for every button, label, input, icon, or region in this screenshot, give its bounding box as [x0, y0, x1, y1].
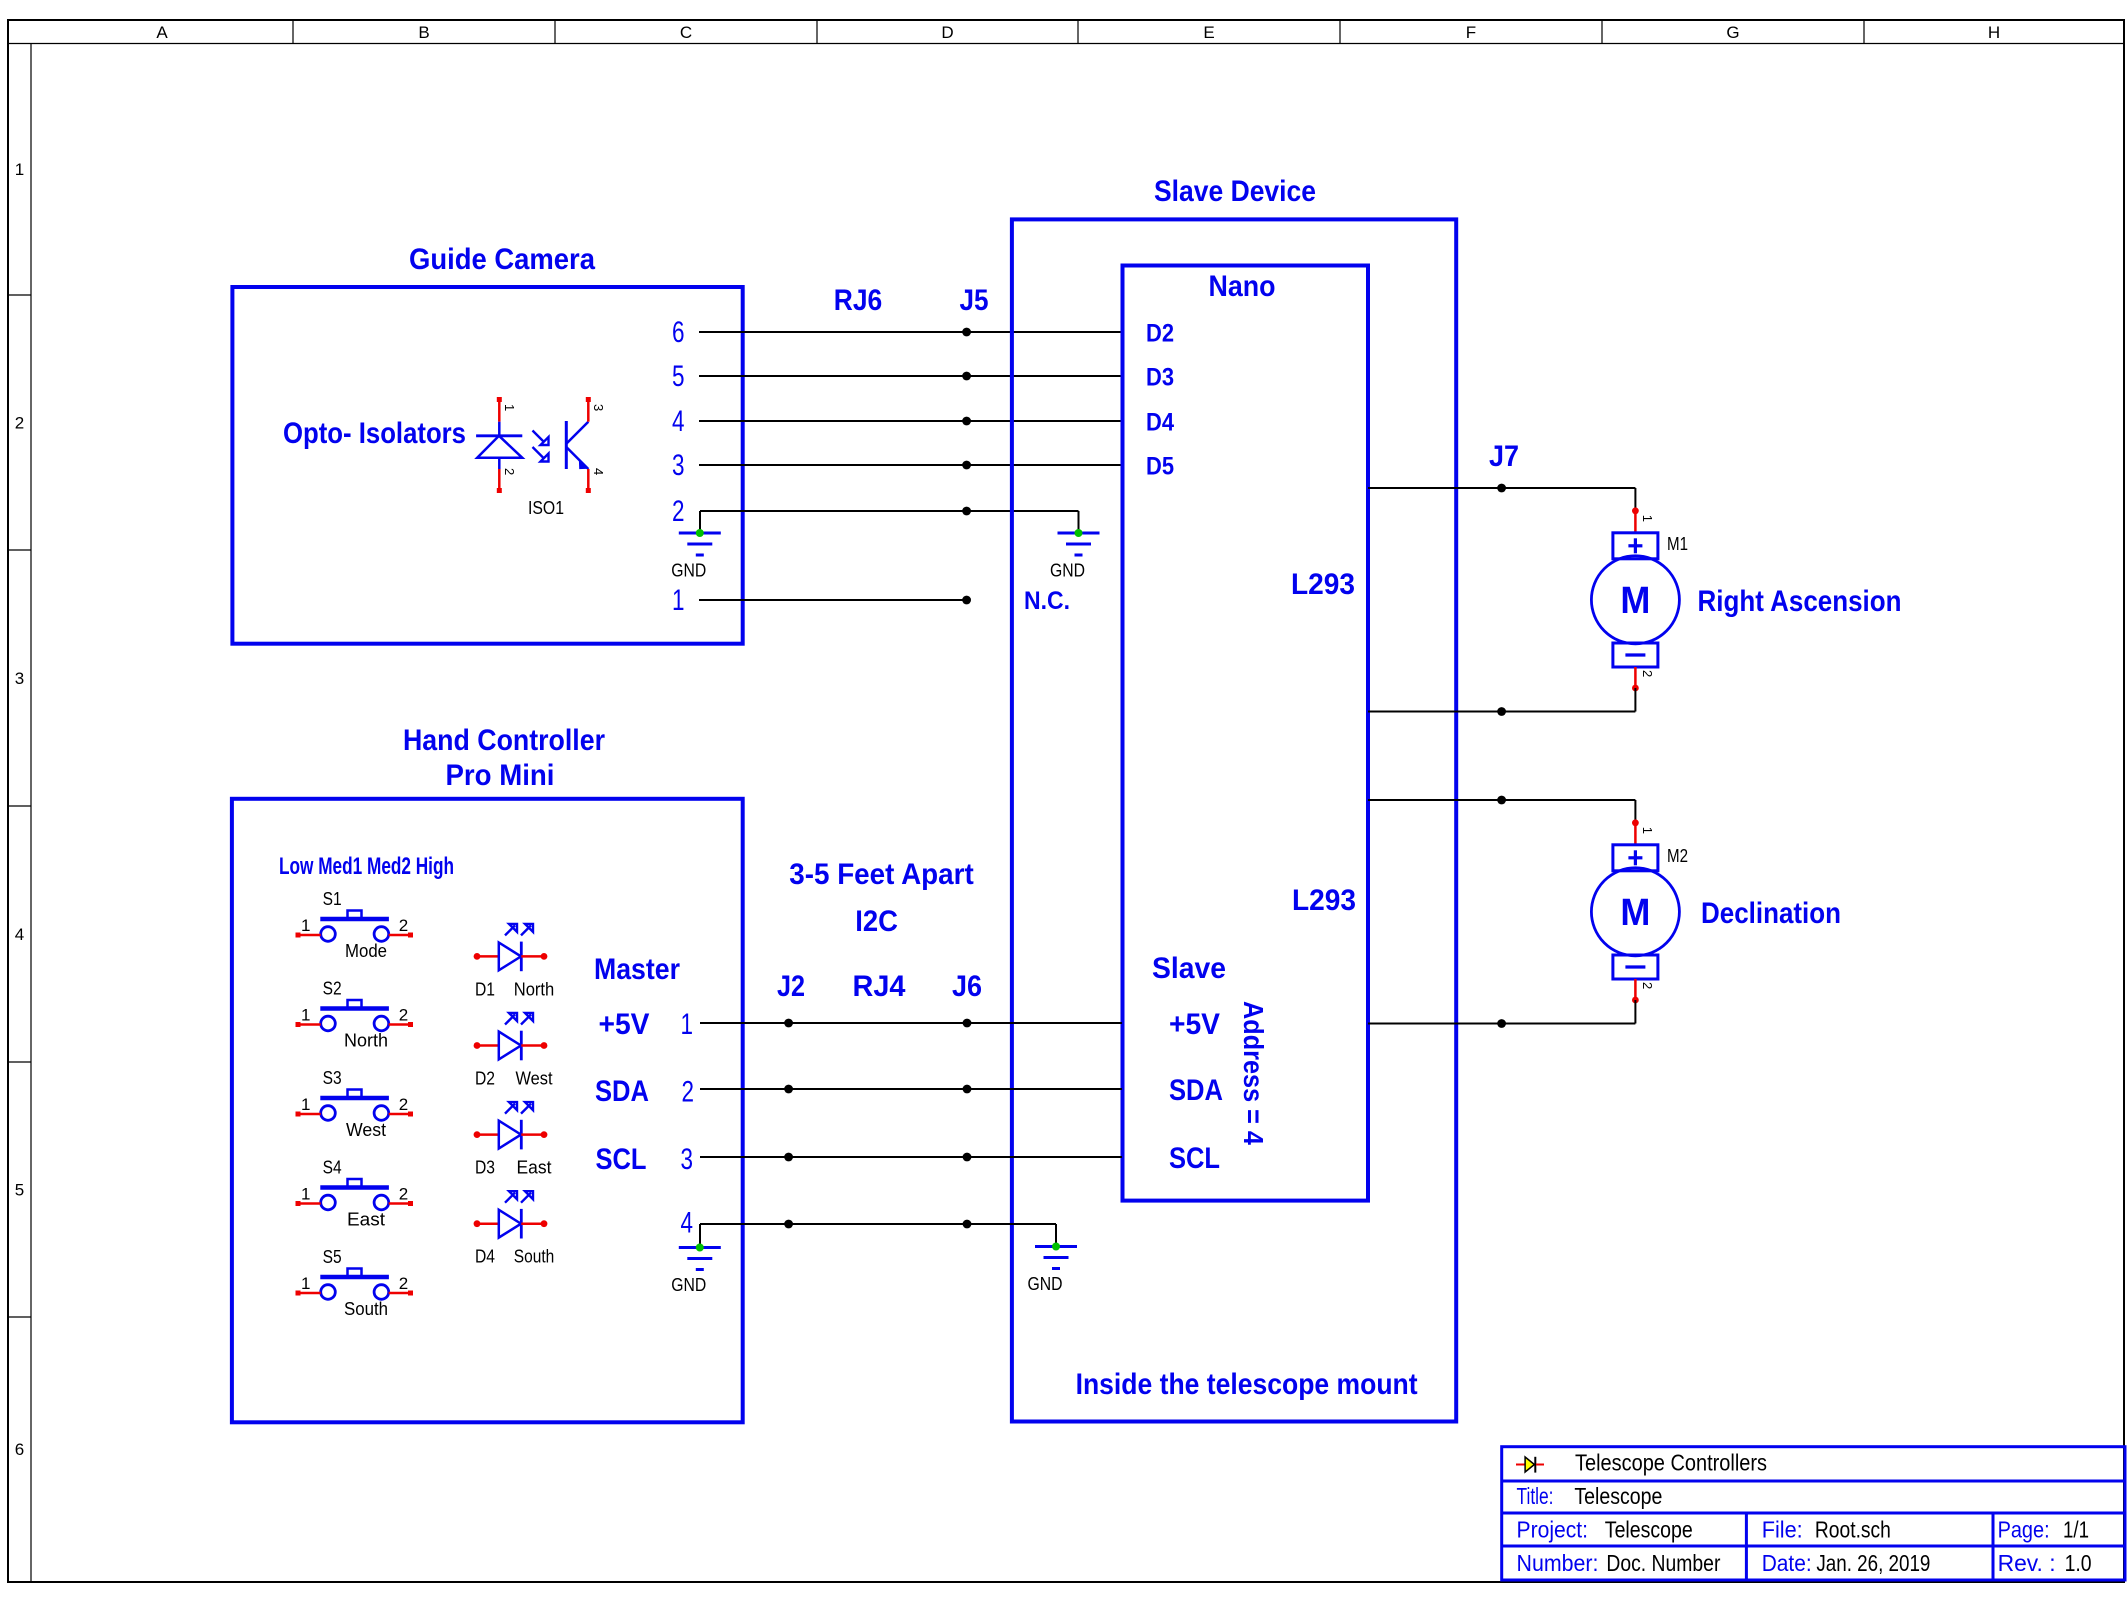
svg-text:Opto- Isolators: Opto- Isolators: [283, 417, 466, 450]
svg-text:North: North: [514, 979, 555, 999]
svg-text:F: F: [1466, 23, 1476, 42]
junction J7 on M2 pin1 wire: [1497, 796, 1506, 805]
svg-text:D4: D4: [1146, 409, 1174, 437]
svg-text:Jan. 26, 2019: Jan. 26, 2019: [1816, 1550, 1930, 1576]
junction on wire 6: [962, 328, 971, 337]
svg-text:West: West: [516, 1069, 553, 1089]
svg-text:Slave: Slave: [1152, 952, 1226, 985]
svg-text:3: 3: [681, 1143, 694, 1176]
svg-text:4: 4: [672, 405, 685, 438]
svg-text:Title:: Title:: [1517, 1483, 1554, 1509]
svg-text:1: 1: [672, 584, 685, 617]
wire SDA master to slave: [700, 1088, 1122, 1090]
svg-text:1: 1: [301, 1274, 310, 1293]
svg-text:RJ6: RJ6: [834, 284, 883, 317]
junction J6 on ground wire: [963, 1220, 972, 1229]
Guide Camera box: [232, 287, 742, 644]
wire motor M2 pin 2 to L293: [1368, 1023, 1635, 1025]
wire L293 to motor M2 pin 1: [1368, 799, 1635, 801]
svg-text:1: 1: [301, 1006, 310, 1025]
svg-text:1: 1: [681, 1008, 694, 1041]
svg-text:D1: D1: [475, 979, 495, 999]
svg-text:4: 4: [15, 925, 24, 944]
svg-text:M1: M1: [1667, 534, 1688, 554]
svg-text:Project:: Project:: [1517, 1517, 1589, 1543]
svg-text:B: B: [418, 23, 429, 42]
svg-text:Doc. Number: Doc. Number: [1606, 1550, 1720, 1576]
LED D4 South: [474, 1191, 555, 1267]
svg-text:1: 1: [301, 1185, 310, 1204]
svg-text:D4: D4: [475, 1247, 495, 1267]
ground at J5 pin 2: [1050, 529, 1100, 581]
svg-text:J5: J5: [960, 284, 989, 317]
svg-text:Declination: Declination: [1701, 897, 1841, 930]
svg-text:Mode: Mode: [345, 941, 387, 961]
svg-text:Telescope: Telescope: [1605, 1517, 1693, 1543]
svg-text:Low Med1 Med2 High: Low Med1 Med2 High: [279, 853, 454, 880]
svg-text:Master: Master: [594, 953, 680, 986]
svg-text:S5: S5: [323, 1247, 342, 1267]
Nano box: [1123, 266, 1369, 1201]
svg-text:1: 1: [301, 1095, 310, 1114]
svg-text:Page:: Page:: [1998, 1517, 2050, 1543]
svg-text:GND: GND: [1028, 1274, 1063, 1294]
title block: [1502, 1447, 2125, 1580]
svg-text:+5V: +5V: [1169, 1008, 1220, 1041]
svg-text:South: South: [344, 1299, 388, 1319]
svg-text:SDA: SDA: [595, 1075, 649, 1108]
junction on wire 4: [962, 417, 971, 426]
junction on wire 2: [962, 507, 971, 516]
svg-text:1: 1: [15, 160, 24, 179]
svg-text:2: 2: [399, 1274, 408, 1293]
svg-text:J7: J7: [1489, 440, 1519, 473]
logo diode: [1516, 1457, 1544, 1473]
svg-text:GND: GND: [671, 561, 706, 581]
motor M2: [1591, 800, 1841, 1024]
junction J6 on SDA wire: [963, 1085, 972, 1094]
switch S4 East: [296, 1158, 414, 1230]
svg-text:North: North: [344, 1031, 388, 1051]
wire pin 4 ground net: [700, 1224, 1056, 1248]
junction J2 on +5V wire: [784, 1019, 793, 1028]
junction J6 on +5V wire: [963, 1019, 972, 1028]
svg-text:Root.sch: Root.sch: [1815, 1517, 1891, 1543]
LED D3 East: [474, 1102, 552, 1178]
svg-text:2: 2: [502, 468, 517, 475]
wire guide camera pin 2 (ground net): [700, 511, 1079, 533]
junction on wire 3: [962, 461, 971, 470]
ground at J6 pin 4: [1028, 1243, 1078, 1295]
svg-text:Pro Mini: Pro Mini: [446, 759, 555, 792]
svg-text:M2: M2: [1667, 846, 1688, 866]
svg-text:M: M: [1620, 580, 1650, 622]
junction end of wire 1: [962, 596, 971, 605]
junction J6 on SCL wire: [963, 1153, 972, 1162]
svg-text:Address = 4: Address = 4: [1238, 1001, 1269, 1145]
svg-text:2: 2: [399, 1006, 408, 1025]
wire guide camera pin 4 to Nano: [699, 420, 1122, 422]
svg-text:Telescope Controllers: Telescope Controllers: [1575, 1450, 1767, 1476]
svg-text:Nano: Nano: [1209, 270, 1276, 303]
svg-text:2: 2: [672, 495, 685, 528]
svg-text:2: 2: [399, 1185, 408, 1204]
wire guide camera pin 6 to Nano: [699, 331, 1122, 333]
switch S5 South: [296, 1247, 414, 1319]
junction on wire 5: [962, 372, 971, 381]
svg-text:File:: File:: [1762, 1517, 1803, 1543]
svg-text:1: 1: [1640, 515, 1655, 522]
wire +5V master to slave: [700, 1022, 1122, 1024]
svg-text:1.0: 1.0: [2065, 1550, 2092, 1576]
svg-text:South: South: [514, 1247, 555, 1267]
junction J7 on M1 pin1 wire: [1497, 484, 1506, 493]
motor M1: [1591, 488, 1901, 712]
Hand Controller box: [232, 799, 743, 1423]
svg-text:+5V: +5V: [599, 1008, 650, 1041]
junction J7 on M1 pin2 wire: [1497, 707, 1506, 716]
wire guide camera pin 1 (N.C.): [699, 599, 967, 601]
svg-text:1: 1: [502, 404, 517, 411]
svg-text:I2C: I2C: [855, 905, 898, 938]
switch S2 North: [296, 979, 414, 1051]
svg-text:J6: J6: [952, 970, 982, 1003]
svg-text:2: 2: [1640, 670, 1655, 677]
title block texts: [1517, 1450, 2092, 1577]
Slave Device box: [1012, 219, 1456, 1421]
svg-text:2: 2: [1640, 982, 1655, 989]
svg-text:SCL: SCL: [1169, 1142, 1220, 1175]
svg-text:D: D: [941, 23, 953, 42]
svg-text:M: M: [1620, 892, 1650, 934]
svg-text:S1: S1: [323, 889, 342, 909]
svg-text:Inside the telescope mount: Inside the telescope mount: [1076, 1368, 1418, 1401]
svg-text:5: 5: [672, 360, 685, 393]
svg-text:6: 6: [15, 1440, 24, 1459]
svg-text:3-5 Feet Apart: 3-5 Feet Apart: [789, 858, 974, 891]
LED D2 West: [474, 1013, 553, 1089]
svg-text:1: 1: [301, 916, 310, 935]
wire motor M1 pin 2 to L293: [1368, 711, 1635, 713]
svg-text:1/1: 1/1: [2063, 1517, 2089, 1543]
wire L293 to motor M1 pin 1: [1368, 487, 1635, 489]
svg-text:D5: D5: [1146, 453, 1174, 481]
svg-text:3: 3: [591, 404, 606, 411]
svg-text:N.C.: N.C.: [1024, 587, 1070, 615]
svg-text:E: E: [1203, 23, 1214, 42]
junction J7 on M2 pin2 wire: [1497, 1019, 1506, 1028]
svg-text:SCL: SCL: [596, 1143, 647, 1176]
svg-text:Number:: Number:: [1517, 1550, 1599, 1576]
svg-text:2: 2: [399, 916, 408, 935]
svg-text:L293: L293: [1292, 884, 1356, 917]
svg-text:GND: GND: [671, 1275, 706, 1295]
svg-text:H: H: [1988, 23, 2000, 42]
wire guide camera pin 5 to Nano: [699, 375, 1122, 377]
svg-text:4: 4: [591, 468, 606, 475]
svg-text:3: 3: [15, 669, 24, 688]
svg-text:D3: D3: [475, 1158, 495, 1178]
svg-text:Right Ascension: Right Ascension: [1698, 585, 1902, 618]
switch S3 West: [296, 1068, 414, 1140]
wire SCL master to slave: [700, 1156, 1122, 1158]
ground at guide camera pin 2: [671, 529, 721, 581]
svg-text:Telescope: Telescope: [1574, 1483, 1662, 1509]
svg-text:6: 6: [672, 316, 685, 349]
svg-text:East: East: [517, 1158, 552, 1178]
svg-text:Guide Camera: Guide Camera: [409, 243, 595, 276]
opto-isolator ISO1: [476, 397, 606, 518]
svg-text:2: 2: [15, 414, 24, 433]
svg-text:D3: D3: [1146, 364, 1174, 392]
svg-text:L293: L293: [1291, 568, 1355, 601]
wire guide camera pin 3 to Nano: [699, 464, 1122, 466]
svg-text:J2: J2: [777, 970, 805, 1003]
svg-text:A: A: [156, 23, 168, 42]
svg-text:SDA: SDA: [1169, 1074, 1223, 1107]
svg-text:GND: GND: [1050, 561, 1085, 581]
junction J2 on ground wire: [784, 1220, 793, 1229]
svg-text:ISO1: ISO1: [528, 498, 564, 518]
svg-text:Hand Controller: Hand Controller: [403, 724, 605, 757]
switch S1 Mode: [296, 889, 414, 961]
svg-text:RJ4: RJ4: [853, 970, 906, 1003]
junction J2 on SDA wire: [784, 1085, 793, 1094]
svg-text:D2: D2: [1146, 320, 1174, 348]
svg-text:2: 2: [682, 1076, 695, 1109]
svg-text:West: West: [346, 1120, 386, 1140]
svg-text:2: 2: [399, 1095, 408, 1114]
svg-text:Date:: Date:: [1762, 1550, 1812, 1576]
svg-text:5: 5: [15, 1181, 24, 1200]
svg-text:S4: S4: [323, 1158, 342, 1178]
svg-text:Rev. :: Rev. :: [1998, 1550, 2056, 1576]
svg-text:G: G: [1726, 23, 1739, 42]
LED D1 North: [474, 924, 555, 1000]
svg-text:Slave Device: Slave Device: [1154, 175, 1316, 208]
svg-text:4: 4: [681, 1206, 694, 1239]
svg-text:C: C: [680, 23, 692, 42]
svg-text:East: East: [347, 1210, 385, 1230]
svg-text:D2: D2: [475, 1069, 495, 1089]
svg-text:S3: S3: [323, 1068, 342, 1088]
svg-text:1: 1: [1640, 827, 1655, 834]
ground at master pin 4: [671, 1244, 721, 1296]
svg-text:3: 3: [672, 449, 685, 482]
junction J2 on SCL wire: [784, 1153, 793, 1162]
svg-text:S2: S2: [323, 979, 342, 999]
